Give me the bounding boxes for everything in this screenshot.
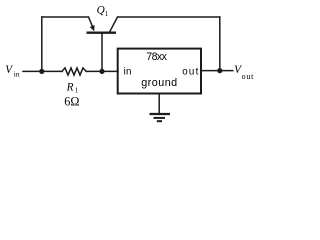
wire Vin lead (23, 70, 62, 72)
regulator U1 box 78xx (118, 49, 201, 94)
wire collector to top-right (118, 16, 220, 18)
svg-text:R: R (66, 81, 74, 93)
wire left vertical from node A (41, 17, 43, 71)
svg-text:78xx: 78xx (146, 51, 167, 63)
transistor Q1 base bar (87, 32, 117, 34)
wire right vertical down to Vout node (219, 17, 221, 71)
transistor Q1 base lead down (101, 33, 103, 69)
svg-text:in: in (124, 67, 132, 78)
node B junction dot (base / R1 / in) (99, 69, 104, 74)
svg-text:out: out (242, 72, 254, 81)
transistor Q1 emitter lead with arrow (89, 17, 95, 31)
transistor Q1 collector lead (110, 17, 118, 32)
svg-text:1: 1 (105, 11, 108, 18)
node A junction dot (39, 69, 44, 74)
svg-text:V: V (5, 64, 13, 76)
wire regulator out to Vout (201, 70, 233, 72)
ground (150, 114, 171, 121)
svg-text:in: in (14, 71, 20, 79)
wire top-left horizontal to Q1 emitter (42, 16, 89, 18)
svg-text:ground: ground (141, 77, 177, 89)
svg-text:out: out (182, 67, 198, 78)
svg-text:Q: Q (97, 4, 105, 16)
resistor R1 (62, 68, 86, 75)
node C junction dot (Vout) (217, 68, 222, 73)
svg-text:1: 1 (75, 88, 78, 95)
svg-text:6Ω: 6Ω (64, 95, 79, 109)
wire ground pin (158, 94, 160, 115)
wire resistor to regulator in (86, 70, 118, 72)
